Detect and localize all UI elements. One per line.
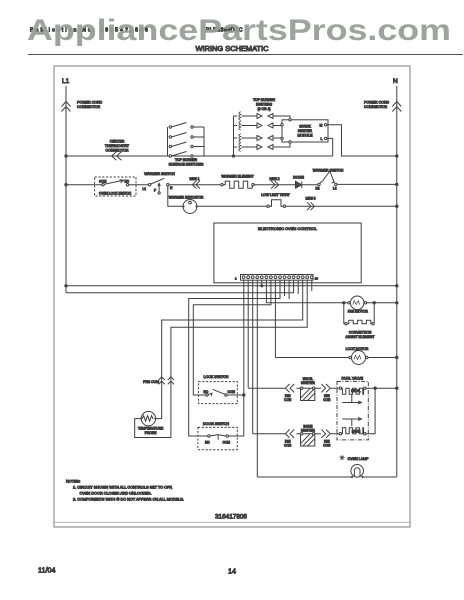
electronic oven control U2 — [214, 223, 361, 283]
svg-text:IGNITER: IGNITER — [301, 428, 315, 432]
svg-text:OVEN LOCK SWITCH: OVEN LOCK SWITCH — [99, 191, 132, 195]
top burner surface switches — [168, 127, 205, 156]
wire terminal 6 down to fan line — [265, 280, 267, 303]
wire element to diode — [254, 184, 295, 186]
svg-text:L1: L1 — [62, 78, 70, 85]
svg-text:ELECTRONIC OVEN CONTROL: ELECTRONIC OVEN CONTROL — [258, 226, 318, 231]
power cord connector left (chevrons) — [62, 102, 71, 112]
svg-text:1. CIRCUIT SHOWN WITH ALL CON: 1. CIRCUIT SHOWN WITH ALL CONTROLS SET T… — [73, 486, 172, 490]
svg-text:MINI 3: MINI 3 — [306, 197, 316, 201]
svg-text:H: H — [170, 186, 173, 190]
igniter row 4 — [234, 142, 291, 151]
convection assist element — [345, 323, 347, 325]
svg-text:WARMER ELEMENT: WARMER ELEMENT — [221, 174, 253, 178]
svg-text:DIODE: DIODE — [293, 175, 304, 179]
svg-text:AppliancePartsPros.com: AppliancePartsPros.com — [27, 14, 451, 47]
wire terminal 1 down (lock/door COM return) — [243, 280, 245, 435]
svg-text:IGNITER: IGNITER — [301, 381, 315, 385]
svg-text:SPARK: SPARK — [299, 125, 311, 129]
header underline — [28, 54, 463, 56]
broil valve armature — [342, 394, 359, 402]
svg-text:NO: NO — [204, 390, 209, 394]
bake valve armature — [342, 419, 359, 426]
wire terminal 15 to probe left loop — [135, 280, 308, 437]
svg-text:NO: NO — [205, 440, 210, 444]
broil igniter connector chevrons — [285, 384, 294, 392]
EOC terminal strip — [241, 275, 314, 281]
svg-text:CON: CON — [323, 443, 331, 447]
svg-text:P: P — [154, 188, 156, 192]
svg-text:WARMER SWITCH: WARMER SWITCH — [313, 168, 344, 172]
wire terminal 2 down to broil line — [247, 280, 249, 388]
svg-text:1: 1 — [235, 277, 237, 281]
svg-text:2. COMPONENTS WITH ✳ DO NOT A: 2. COMPONENTS WITH ✳ DO NOT APPEAR ON AL… — [73, 497, 184, 501]
svg-text:OVEN LAMP: OVEN LAMP — [348, 457, 370, 461]
wire terminal 10 stub — [284, 280, 286, 296]
wire lamp line — [257, 476, 397, 478]
svg-text:M: M — [320, 124, 323, 128]
wire door COM to t1 vertical — [228, 435, 243, 437]
svg-text:WIRING SCHEMATIC: WIRING SCHEMATIC — [196, 46, 269, 53]
svg-text:BROIL: BROIL — [351, 389, 361, 393]
fan motor M1 — [350, 296, 364, 310]
svg-text:316417806: 316417806 — [215, 514, 247, 521]
wire broil line — [248, 387, 339, 389]
wire line1 L1 to spark module L — [66, 155, 333, 157]
svg-text:(2 OR 4): (2 OR 4) — [258, 107, 271, 111]
oven lamp — [340, 455, 345, 460]
wire lock COM to t1 vertical — [227, 394, 244, 396]
wire terminal 7 to lock switch NO — [193, 280, 271, 395]
igniter row 2 — [234, 121, 283, 130]
svg-text:CON: CON — [284, 398, 292, 402]
wire terminal 9 to door switch NO — [189, 280, 280, 436]
power cord connector right (chevrons) — [392, 102, 401, 112]
wire bus line A (L1 bus to N bus) — [66, 285, 397, 287]
igniter bus — [233, 116, 235, 156]
wire indicator to low limit tstat — [198, 205, 267, 207]
svg-text:LOW LIMIT TSTAT: LOW LIMIT TSTAT — [261, 193, 289, 197]
wire module M to N bus — [327, 125, 397, 156]
footer separator line — [54, 521, 410, 523]
igniter row 3 — [234, 134, 283, 143]
svg-text:MINI 2: MINI 2 — [270, 177, 280, 181]
svg-text:MINI 1: MINI 1 — [190, 177, 200, 181]
wire terminal 14 to probe right — [157, 280, 303, 418]
svg-text:L: L — [321, 137, 323, 141]
svg-text:SURFACE SWITCHES: SURFACE SWITCHES — [169, 162, 205, 166]
svg-text:COM: COM — [223, 440, 231, 444]
svg-text:LOCK SWITCH: LOCK SWITCH — [204, 375, 229, 379]
wire terminal 4 down to lamp line — [256, 280, 258, 477]
svg-text:COM: COM — [228, 390, 236, 394]
svg-text:TEMPERATURE: TEMPERATURE — [138, 427, 164, 431]
svg-text:WARMER INDICATOR: WARMER INDICATOR — [169, 196, 204, 200]
svg-text:CONNECTOR: CONNECTOR — [364, 105, 387, 109]
wire fan motor to N — [367, 302, 397, 304]
svg-text:PRB COM: PRB COM — [143, 380, 159, 384]
svg-text:CON: CON — [284, 443, 292, 447]
bake igniter connector chevrons — [285, 430, 294, 438]
wire line2 left — [66, 184, 102, 186]
spark igniter module U1 — [282, 120, 328, 142]
wire bake line — [253, 433, 340, 435]
svg-text:CENTER: CENTER — [110, 140, 125, 144]
svg-text:16: 16 — [315, 277, 319, 281]
svg-text:OVEN DOOR CLOSED AND UNLOCKED.: OVEN DOOR CLOSED AND UNLOCKED. — [80, 491, 152, 495]
svg-text:COM: COM — [99, 180, 107, 184]
wire lock motor to N — [368, 357, 397, 359]
lamp DS1 — [351, 465, 364, 478]
svg-text:CONVECTION: CONVECTION — [349, 330, 372, 334]
wire line2 right to N — [337, 183, 397, 185]
wire module L to line1 — [327, 138, 333, 156]
wire terminal 16 stub — [311, 280, 313, 291]
svg-text:DUAL VALVE: DUAL VALVE — [342, 377, 364, 381]
svg-text:IGNITERS: IGNITERS — [256, 103, 273, 107]
schematic frame — [54, 66, 410, 527]
svg-text:14: 14 — [228, 567, 236, 576]
wire fan motor line — [266, 302, 349, 304]
wire L1 bus vertical — [65, 86, 67, 293]
svg-text:N: N — [393, 78, 398, 85]
svg-text:THERMOSTAT: THERMOSTAT — [105, 144, 130, 148]
svg-text:POWER CORD: POWER CORD — [364, 101, 390, 105]
svg-text:H2: H2 — [316, 187, 320, 191]
svg-text:CON: CON — [323, 398, 331, 402]
wire terminal 3 down to bake line — [252, 280, 254, 434]
temperature probe RT1 — [141, 411, 155, 425]
svg-text:FAN MOTOR: FAN MOTOR — [348, 310, 369, 314]
svg-text:IGNITER: IGNITER — [298, 129, 313, 133]
wire line2 H to mini1 — [169, 184, 221, 186]
convection assist element stubs — [344, 303, 345, 324]
svg-text:DOOR SWITCH: DOOR SWITCH — [203, 422, 229, 426]
wire terminal 13 stub — [297, 280, 299, 294]
wire lock motor line — [275, 357, 350, 359]
svg-text:NOTES:: NOTES: — [66, 479, 80, 483]
bake valve coil — [339, 433, 341, 435]
igniter row 1 — [234, 112, 291, 121]
svg-text:MODULE: MODULE — [298, 134, 314, 138]
svg-text:NC: NC — [125, 180, 130, 184]
broil valve coil — [339, 387, 341, 389]
wire valve return vertical — [366, 388, 375, 434]
svg-text:PROBE: PROBE — [145, 431, 158, 435]
svg-text:ASSIST ELEMENT: ASSIST ELEMENT — [346, 335, 375, 339]
wire terminal 11 stub — [288, 280, 290, 299]
svg-text:L1: L1 — [143, 187, 147, 191]
svg-text:11/04: 11/04 — [38, 566, 55, 575]
oven lock switch (dashed box) — [95, 177, 136, 196]
wire tstat to N — [286, 205, 397, 207]
wire broil valve to N — [366, 387, 397, 389]
wire terminal 5 to line A — [261, 280, 263, 286]
svg-text:BAKE: BAKE — [352, 430, 361, 434]
wire N bus vertical — [396, 86, 398, 477]
wire terminal 8 down to lock motor line — [274, 280, 276, 357]
svg-text:CONNECTOR: CONNECTOR — [105, 149, 128, 153]
svg-text:TOP BURNER: TOP BURNER — [253, 98, 276, 102]
svg-text:L2: L2 — [333, 187, 337, 191]
wire H drop to indicator — [168, 186, 183, 206]
wire terminal 12 to L1 bus corner — [66, 280, 294, 293]
wire lock NC to warmer switch — [129, 184, 149, 186]
svg-text:WARMER SWITCH: WARMER SWITCH — [144, 172, 175, 176]
svg-text:POWER CORD: POWER CORD — [77, 101, 103, 105]
svg-text:CONNECTOR: CONNECTOR — [77, 105, 100, 109]
